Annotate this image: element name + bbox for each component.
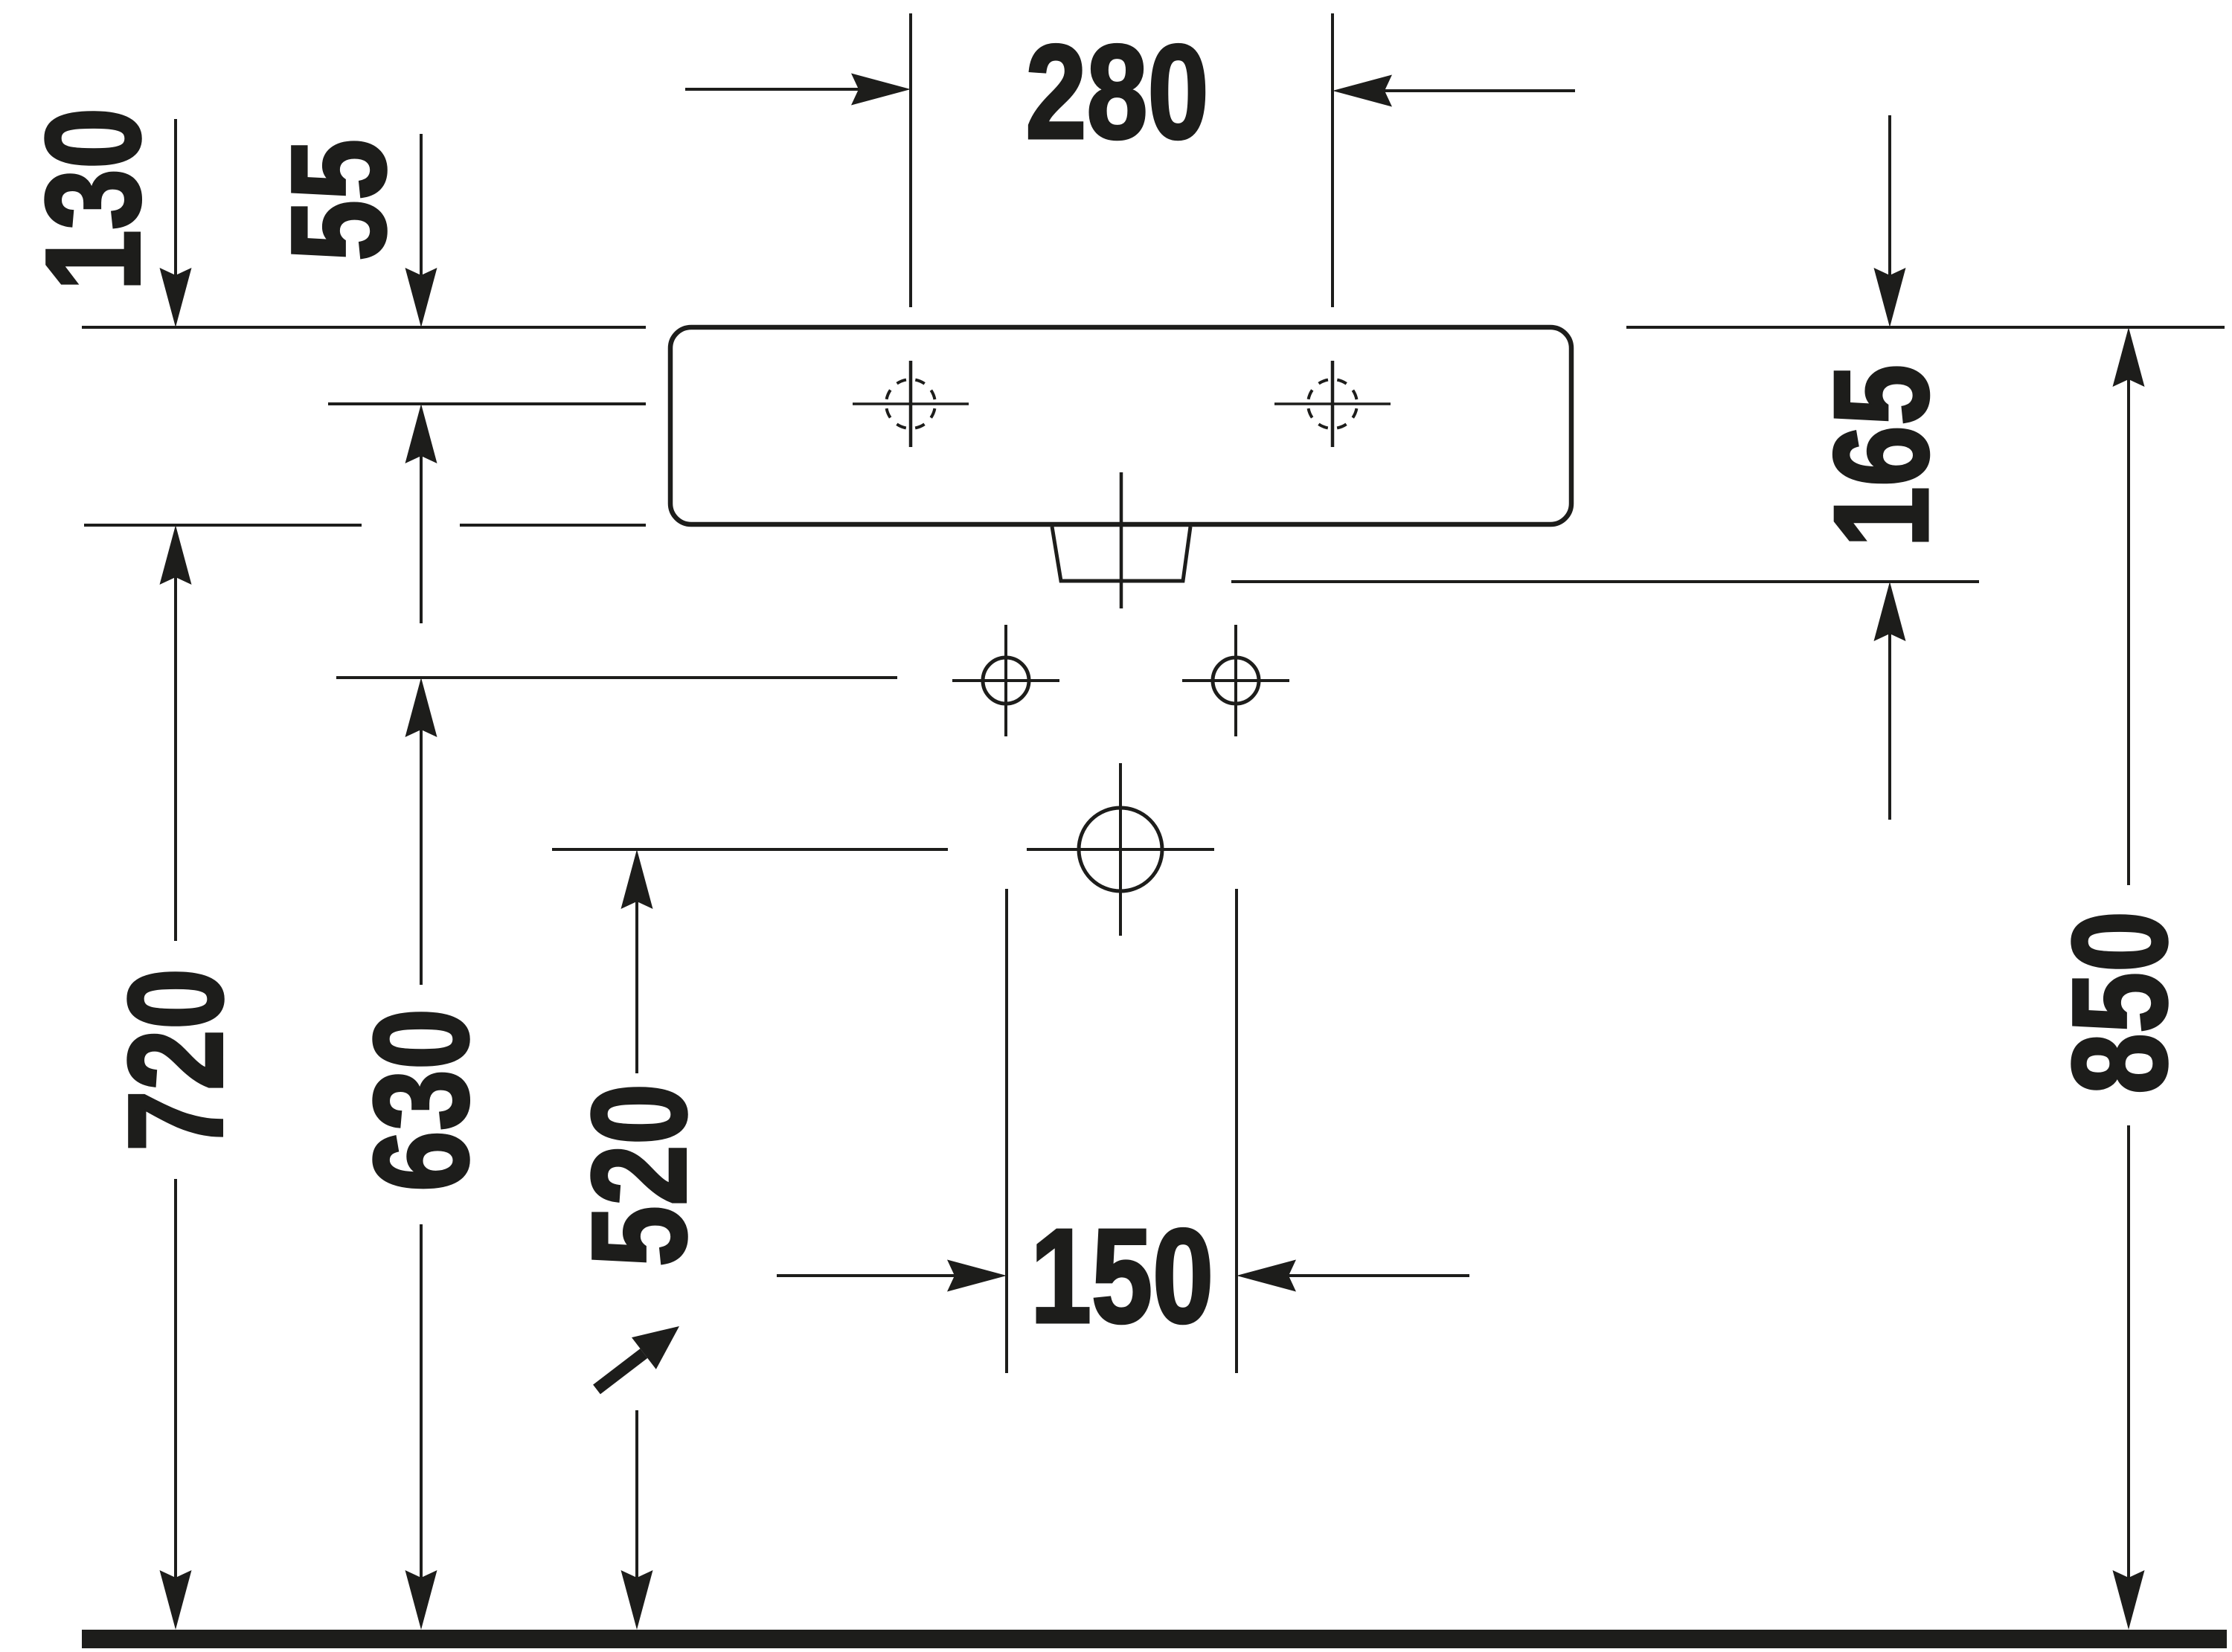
svg-text:165: 165 xyxy=(1806,364,1956,547)
svg-text:130: 130 xyxy=(18,108,167,291)
svg-text:850: 850 xyxy=(2045,911,2194,1094)
svg-text:280: 280 xyxy=(1025,17,1208,167)
svg-text:630: 630 xyxy=(346,1009,496,1192)
svg-text:520: 520 xyxy=(564,1084,713,1267)
svg-text:720: 720 xyxy=(100,968,250,1151)
svg-text:55: 55 xyxy=(263,139,413,261)
svg-text:150: 150 xyxy=(1030,1201,1213,1351)
